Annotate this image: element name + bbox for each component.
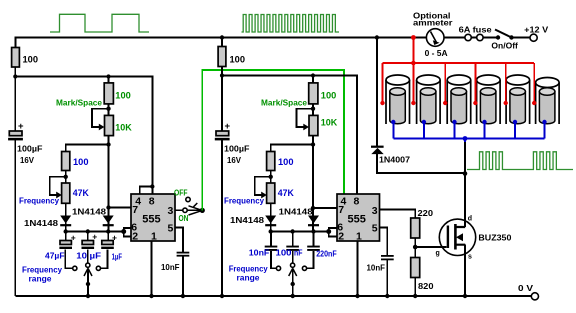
label Mark/Space (osc2)	[261, 98, 307, 108]
fuse 6A	[465, 34, 483, 40]
junction osc2 rail left	[220, 73, 224, 77]
switch osc1 frequency range selector contacts	[73, 263, 101, 270]
svg-text:6A fuse: 6A fuse	[459, 24, 492, 34]
label OFF	[174, 187, 188, 197]
diode 1N4148 (osc1 left)	[60, 216, 71, 227]
svg-text:100µF: 100µF	[17, 144, 43, 154]
junction gate tee	[413, 245, 418, 250]
wire osc2 pin3 to 220 resistor	[380, 210, 416, 219]
ammeter 0-5A	[426, 29, 444, 47]
wire osc2 pin 7	[313, 207, 337, 209]
svg-text:+12 V: +12 V	[524, 24, 548, 34]
svg-text:7: 7	[132, 204, 138, 216]
label 100uF (osc2)	[224, 144, 250, 154]
svg-text:10K: 10K	[321, 118, 338, 129]
label 1N4148 (osc2 left)	[230, 215, 264, 225]
junction top rail at 1N4007 branch	[375, 35, 379, 39]
potentiometer 47K (osc1 frequency)	[62, 183, 70, 203]
svg-text:1N4148: 1N4148	[72, 207, 106, 217]
svg-text:820: 820	[418, 281, 434, 291]
svg-text:100µF: 100µF	[224, 144, 250, 154]
svg-text:+: +	[92, 231, 97, 241]
svg-text:1: 1	[151, 231, 157, 243]
svg-text:+: +	[112, 232, 117, 242]
svg-text:1N4148: 1N4148	[24, 218, 58, 228]
label Frequency (osc1)	[19, 195, 59, 205]
svg-text:range: range	[237, 273, 260, 283]
switch osc2 selector arm	[289, 268, 297, 296]
label + (47uF)	[71, 232, 76, 242]
junction osc1 cap bus middle	[86, 229, 90, 233]
wire osc1 mark/space chain vertical	[108, 77, 110, 232]
svg-text:5: 5	[372, 223, 378, 235]
label 100 (osc2 mark/space)	[321, 90, 337, 101]
junction gating switch pivot	[200, 208, 205, 213]
switch On/Off	[495, 30, 514, 40]
junction osc2 cap bus left	[269, 229, 273, 233]
label + (10uF)	[92, 231, 97, 241]
label 10uF	[76, 251, 101, 261]
label BUZ350	[478, 233, 511, 243]
svg-text:10nF: 10nF	[249, 248, 270, 258]
junction osc2 timing chain node	[311, 142, 315, 146]
junction osc1 timing chain node	[106, 142, 110, 146]
svg-text:0 - 5A: 0 - 5A	[425, 48, 448, 58]
switch osc1 selector arm	[84, 268, 92, 296]
junction drain tee	[463, 171, 468, 176]
svg-text:8: 8	[149, 196, 155, 208]
wire osc2 mark/space chain vertical	[312, 76, 314, 232]
label 10K (osc1)	[115, 123, 132, 134]
label + (osc1 100uF polarity)	[18, 121, 24, 132]
label 100 (osc1 mark/space)	[115, 90, 131, 101]
wire osc2 frequency chain	[271, 145, 313, 232]
svg-text:47µF: 47µF	[45, 251, 65, 261]
switch osc2 frequency range selector contacts	[276, 263, 306, 270]
junction osc1 cap bus right	[106, 229, 110, 233]
wire osc1 left supply branch	[14, 38, 16, 297]
wire osc2 timing cap bus	[271, 228, 337, 237]
svg-text:100: 100	[115, 90, 131, 101]
svg-text:ammeter: ammeter	[413, 18, 453, 28]
junction osc2 selector at 0V rail	[291, 294, 295, 298]
svg-text:µF: µF	[90, 251, 102, 261]
label 220nF (osc2 range)	[316, 248, 337, 258]
svg-text:Mark/Space: Mark/Space	[261, 98, 307, 108]
svg-text:16V: 16V	[20, 155, 34, 165]
label 1N4148 (osc1 right)	[72, 207, 106, 217]
op-amp U1 555 timer (osc1)	[131, 194, 175, 243]
svg-text:Frequency: Frequency	[19, 195, 59, 205]
label 220	[418, 208, 434, 218]
cell 2 electrode pair	[417, 75, 441, 124]
svg-text:7: 7	[338, 204, 344, 216]
wire osc1 timing cap bus	[66, 228, 131, 237]
label On/Off	[491, 41, 518, 51]
node +12V terminal	[530, 34, 537, 41]
svg-text:47K: 47K	[73, 188, 89, 199]
junction osc2 47K wiper	[269, 175, 273, 179]
label 6A fuse	[459, 24, 492, 34]
junction osc2 pin1 at rail	[355, 294, 359, 298]
junction osc1 selector at 0V rail	[86, 294, 90, 298]
wire osc2 left supply branch	[221, 38, 223, 297]
capacitor 10nF (osc2 range)	[265, 232, 278, 269]
junction top rail at osc2 branch	[220, 35, 224, 39]
svg-text:s: s	[468, 254, 472, 261]
label 100 (osc2 frequency, blue)	[278, 157, 294, 168]
svg-text:47K: 47K	[278, 188, 294, 199]
capacitor 1uF (osc1 range)	[101, 232, 114, 269]
wire osc2 pin 1 to 0V	[357, 241, 359, 296]
junction osc2 mark/space wiper	[311, 107, 315, 111]
junction source at rail	[463, 294, 467, 298]
svg-text:nF: nF	[294, 248, 303, 258]
label 100uF (osc1)	[17, 144, 43, 154]
capacitor 100nF (osc2 range)	[286, 232, 299, 264]
svg-text:555: 555	[348, 214, 366, 226]
svg-text:1N4148: 1N4148	[279, 207, 313, 217]
wire osc1 pin 5 and 10nF	[175, 228, 183, 297]
wire osc1 10K wiper	[92, 109, 109, 131]
capacitor 100uF 16V (osc2)	[215, 131, 230, 140]
junction osc1 rail left	[13, 74, 17, 78]
resistor 220	[411, 218, 420, 238]
wire osc2 10K wiper	[297, 109, 314, 131]
wire osc1 local Vcc rail	[15, 77, 152, 195]
label 47K (osc2)	[278, 188, 294, 199]
svg-text:1N4148: 1N4148	[230, 215, 264, 225]
junction osc1 selector stem	[86, 282, 90, 286]
resistor 820	[411, 258, 420, 278]
switch gating on/off arm	[189, 203, 203, 215]
svg-text:100: 100	[276, 248, 292, 258]
svg-text:10nF: 10nF	[367, 263, 386, 273]
diode 1N4007	[371, 146, 384, 155]
node osc1 pin3 ON contact	[183, 208, 187, 212]
junction osc1 pin7 tap	[106, 205, 110, 209]
svg-text:0 V: 0 V	[518, 283, 533, 293]
resistor 100 (osc1 mark/space)	[104, 83, 113, 104]
label 1uF	[112, 252, 122, 262]
junction osc1 pins 2+6	[121, 229, 126, 234]
label g	[436, 250, 440, 257]
node OFF contact	[186, 197, 190, 201]
node 0V terminal	[531, 293, 538, 300]
resistor 100 (osc2 supply)	[218, 47, 226, 67]
wire osc2 local Vcc rail	[222, 76, 357, 195]
wire osc2 47K wiper	[255, 177, 271, 199]
wire gate	[415, 246, 447, 248]
junction osc1 47K wiper	[63, 175, 67, 179]
junction osc2 pin7 tap	[311, 206, 315, 210]
wire source to 0V	[464, 245, 466, 296]
svg-text:1: 1	[356, 231, 362, 243]
label + (1uF)	[112, 232, 117, 242]
capacitor 47uF (osc1 range)	[59, 232, 72, 269]
waveform gated burst output at MOSFET drain	[467, 152, 573, 170]
label 100 (osc1 supply resistor)	[23, 55, 39, 66]
svg-text:100: 100	[321, 90, 337, 101]
label 820	[418, 281, 434, 291]
wire red cell bus	[383, 63, 535, 103]
label Frequency range (osc1)	[22, 264, 62, 283]
junction blue bus to drain	[463, 136, 468, 141]
svg-text:555: 555	[142, 214, 160, 226]
svg-text:100: 100	[73, 157, 89, 168]
svg-text:d: d	[468, 216, 472, 223]
wire 1N4007 branch	[377, 38, 465, 174]
label 1N4007	[379, 155, 410, 165]
svg-text:ON: ON	[179, 213, 189, 223]
label ON	[179, 213, 189, 223]
label 100 (osc2 supply resistor)	[230, 55, 246, 66]
label 1N4148 (osc2 right)	[279, 207, 313, 217]
label ammeter	[413, 18, 453, 28]
label 16V (osc1)	[20, 155, 34, 165]
node blue electrode taps	[391, 120, 547, 124]
svg-text:range: range	[29, 273, 52, 283]
svg-text:+: +	[71, 232, 76, 242]
junction 820 at rail	[413, 294, 417, 298]
svg-text:100: 100	[23, 55, 39, 66]
svg-text:3: 3	[372, 205, 378, 217]
svg-text:+: +	[225, 121, 231, 132]
svg-text:100: 100	[278, 157, 294, 168]
label Frequency range (osc2)	[229, 264, 268, 283]
junction osc1 10nF at rail	[181, 294, 185, 298]
capacitor 10nF (osc2 pin5)	[381, 255, 394, 260]
potentiometer 10K (osc1 mark/space)	[105, 115, 114, 135]
capacitor 100uF 16V (osc1)	[8, 131, 23, 140]
svg-text:100: 100	[230, 55, 246, 66]
resistor 100 (osc1 frequency)	[62, 152, 70, 171]
cell 5 electrode pair	[506, 75, 530, 124]
wire blue cell bus	[393, 122, 544, 142]
svg-text:220: 220	[418, 208, 434, 218]
junction osc2 branch at rail	[220, 294, 224, 298]
wire red positive feed to cells	[412, 38, 414, 64]
junction osc2 cap bus middle	[290, 229, 294, 233]
label 47K (osc1)	[73, 188, 89, 199]
diode 1N4148 (osc2 right)	[308, 216, 319, 227]
svg-text:On/Off: On/Off	[491, 41, 518, 51]
wire drain	[464, 141, 466, 227]
wire bottom 0V rail	[15, 295, 531, 297]
junction red bus feed	[411, 61, 416, 66]
label 0-5A	[425, 48, 448, 58]
label 1N4148 (osc1 left)	[24, 218, 58, 228]
label 10nF (osc2 pin5)	[367, 263, 386, 273]
resistor 100 (osc2 frequency)	[267, 152, 275, 171]
wire top +12V rail	[15, 38, 530, 49]
label 10nF (osc1)	[161, 262, 180, 272]
junction osc1 pins 4+8 tie	[150, 184, 154, 188]
node red electrode taps	[380, 101, 536, 105]
svg-text:10nF: 10nF	[161, 262, 180, 272]
cell 6 electrode pair	[536, 78, 560, 125]
label 16V (osc2)	[227, 155, 241, 165]
svg-text:5: 5	[168, 223, 174, 235]
label 0 V	[518, 283, 533, 293]
svg-text:1µF: 1µF	[112, 252, 122, 262]
cell 1 electrode pair	[386, 75, 410, 124]
junction osc2 selector stem	[291, 282, 295, 286]
svg-text:Frequency: Frequency	[224, 195, 264, 205]
label s	[468, 254, 472, 261]
junction osc1 rail at mark/space chain	[106, 74, 110, 78]
cell 3 electrode pair	[447, 75, 471, 124]
op-amp U2 555 timer (osc2)	[337, 194, 380, 243]
label d	[468, 216, 472, 223]
junction osc2 rail at mark/space chain	[311, 73, 315, 77]
potentiometer 47K (osc2 frequency)	[267, 183, 275, 203]
diode 1N4148 (osc2 left)	[265, 216, 276, 227]
junction osc1 cap bus left	[63, 229, 67, 233]
svg-text:16V: 16V	[227, 155, 241, 165]
wire osc1 pin 3 output	[175, 209, 200, 211]
svg-text:3: 3	[168, 205, 174, 217]
label 47uF	[45, 251, 65, 261]
svg-text:10: 10	[76, 251, 87, 261]
wire osc1 pin 1 to 0V	[151, 241, 153, 296]
svg-text:Mark/Space: Mark/Space	[56, 98, 102, 108]
diode 1N4148 (osc1 right)	[103, 216, 114, 227]
label 10K (osc2)	[321, 118, 338, 129]
svg-text:1N4007: 1N4007	[379, 155, 410, 165]
svg-text:OFF: OFF	[174, 187, 188, 197]
transistor Q1 BUZ350 MOSFET	[439, 219, 475, 255]
wire osc2 pin 5 and 10nF	[380, 228, 388, 297]
potentiometer 10K (osc2 mark/space)	[309, 115, 318, 135]
label + (osc2 100uF polarity)	[225, 121, 231, 132]
junction osc2 pins 2+6	[326, 229, 331, 234]
label 100nF (osc2 range)	[276, 248, 303, 258]
capacitor 220nF (osc2 range)	[307, 232, 320, 269]
svg-text:2: 2	[338, 231, 344, 243]
cell 4 electrode pair	[477, 75, 501, 124]
capacitor 10uF (osc1 range)	[82, 232, 95, 264]
svg-text:2: 2	[132, 231, 138, 243]
resistor 100 (osc1 supply)	[12, 48, 20, 68]
label +12 V	[524, 24, 548, 34]
label 100 (osc1 frequency, blue)	[73, 157, 89, 168]
junction osc2 10nF at rail	[385, 294, 389, 298]
svg-text:BUZ350: BUZ350	[478, 233, 511, 243]
capacitor 10nF (osc1 pin5)	[177, 252, 190, 257]
wire 220 to 820 to rail	[414, 238, 416, 296]
svg-text:g: g	[436, 250, 440, 257]
label Frequency (osc2)	[224, 195, 264, 205]
svg-text:+: +	[18, 121, 24, 132]
resistor 100 (osc2 mark/space)	[309, 83, 318, 104]
label 10nF (osc2 range)	[249, 248, 270, 258]
node red feed junction on top rail	[411, 35, 416, 40]
junction osc2 cap bus right	[311, 229, 315, 233]
svg-text:220nF: 220nF	[316, 248, 337, 258]
svg-text:8: 8	[354, 196, 360, 208]
junction osc1 pin1 at rail	[149, 294, 153, 298]
wire osc1 47K wiper	[50, 177, 66, 199]
waveform slow square wave (osc1 output)	[50, 14, 149, 32]
label Mark/Space (osc1)	[56, 98, 102, 108]
waveform fast square wave (osc2 output)	[242, 15, 340, 33]
label Optional	[413, 11, 451, 21]
junction osc1 mark/space wiper	[106, 107, 110, 111]
wire osc1 frequency chain	[66, 145, 109, 232]
wire gating signal (green) to osc2 reset pin 4	[202, 70, 344, 210]
svg-text:10K: 10K	[115, 123, 132, 134]
wire osc1 pin 7	[109, 207, 132, 209]
